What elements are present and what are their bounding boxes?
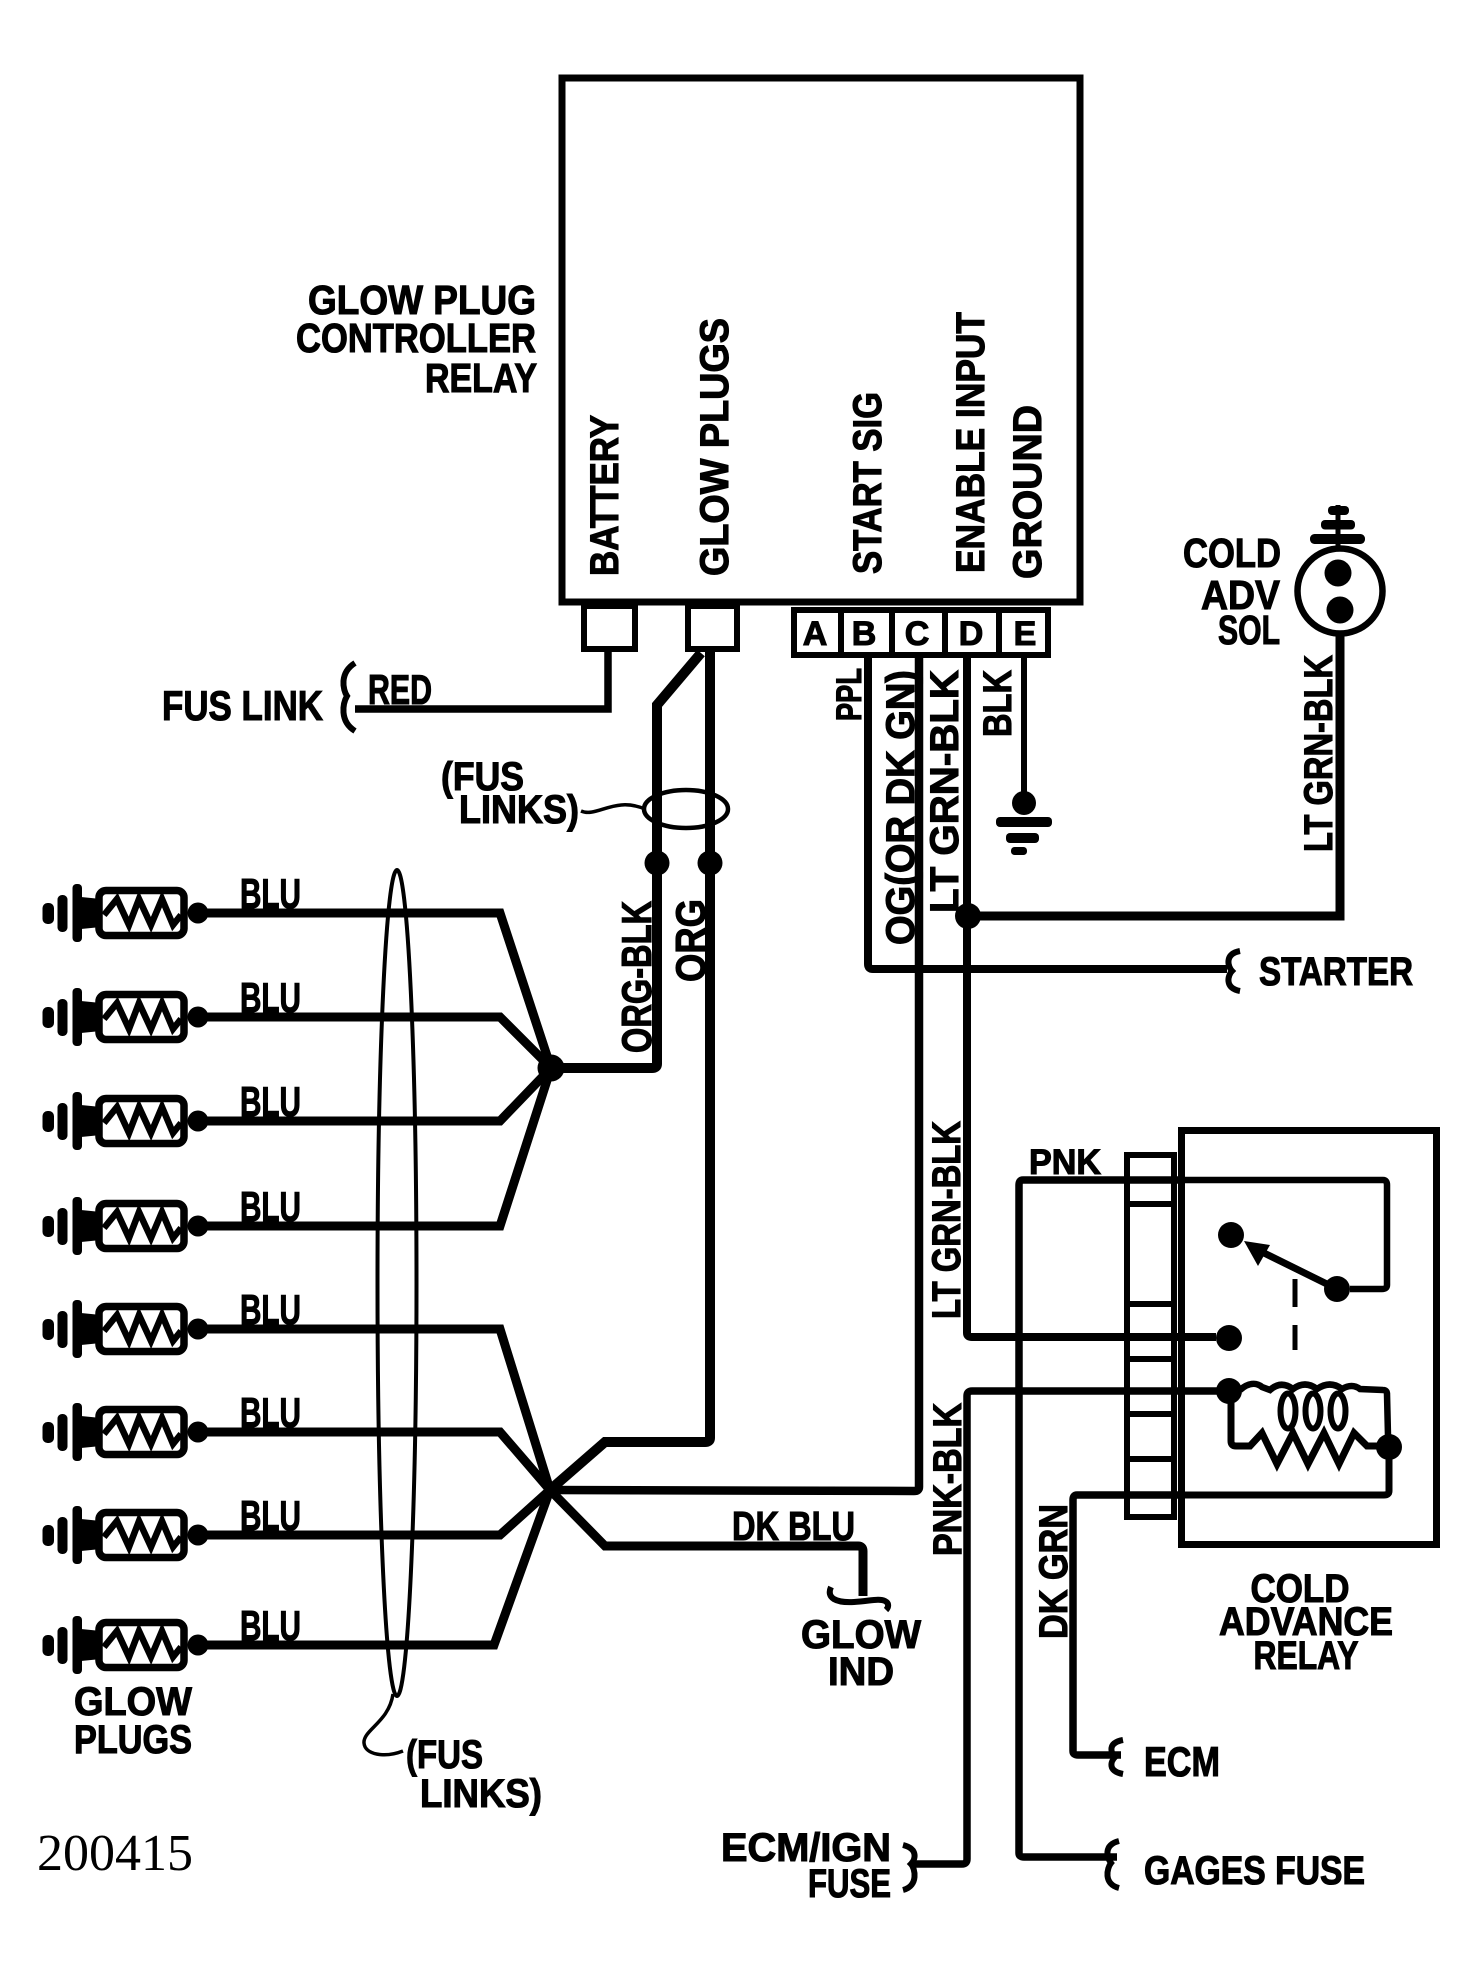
svg-text:OG(OR DK GN): OG(OR DK GN) — [879, 670, 923, 945]
relay resistor — [1231, 1400, 1378, 1464]
junction dot on ORG — [698, 851, 723, 876]
svg-text:ENABLE INPUT: ENABLE INPUT — [949, 312, 993, 573]
wire BLU row 6 to X junction — [198, 1432, 550, 1490]
svg-text:STARTER: STARTER — [1259, 950, 1413, 994]
svg-text:E: E — [1014, 615, 1037, 653]
label (FUS LINKS) bottom — [406, 1733, 542, 1816]
switch arrowhead — [1244, 1241, 1270, 1266]
glow plug GP2 — [43, 988, 209, 1046]
relay contact dot (pin 3) — [1216, 1325, 1242, 1351]
glow plug GP8 — [43, 1616, 209, 1674]
label GLOW IND — [801, 1613, 921, 1694]
switch pivot dot — [1324, 1276, 1350, 1302]
wire BLU row 3 to junction — [198, 1068, 551, 1121]
wire BLU row 5 to X junction — [198, 1329, 550, 1490]
svg-text:START SIG: START SIG — [846, 392, 890, 574]
svg-text:GLOW PLUGS: GLOW PLUGS — [693, 318, 737, 576]
label ECM/IGN FUSE — [721, 1826, 891, 1906]
svg-text:COLD: COLD — [1183, 530, 1281, 576]
wire BLK: pin E to ground — [1021, 658, 1027, 795]
ground symbol — [996, 791, 1052, 855]
svg-text:B: B — [852, 615, 877, 653]
switch NC contact dot — [1218, 1222, 1244, 1248]
coil/resistor output dot — [1376, 1434, 1402, 1460]
wire ORG-BLK: glow tab to junction J1 — [551, 653, 701, 1068]
glow plug GP3 — [43, 1092, 209, 1150]
svg-text:LINKS): LINKS) — [420, 1772, 542, 1816]
wire PPL: pin B to STARTER — [868, 658, 1227, 969]
wire BLU row 1 to junction — [198, 913, 551, 1068]
svg-text:RELAY: RELAY — [1254, 1634, 1359, 1678]
svg-text:GAGES FUSE: GAGES FUSE — [1144, 1849, 1365, 1893]
svg-text:ECM: ECM — [1144, 1738, 1220, 1785]
leader from LINKS) to ellipse — [581, 805, 645, 813]
coil feed dot (pin 4) — [1216, 1378, 1242, 1404]
cold adv sol: label — [1183, 530, 1281, 653]
label GLOW PLUGS bottom left — [74, 1680, 192, 1762]
svg-text:PNK-BLK: PNK-BLK — [926, 1403, 970, 1556]
svg-text:PNK: PNK — [1029, 1143, 1101, 1182]
relay box: GLOW PLUG CONTROLLER RELAY — [562, 78, 1080, 602]
wire RED: fus link to battery tab — [355, 652, 608, 709]
wire DK GRN: relay pin 6 down to ecm — [1073, 1495, 1180, 1755]
glow ind terminal — [830, 1587, 888, 1610]
svg-text:C: C — [905, 615, 930, 653]
glow plug GP1 — [43, 884, 209, 942]
junction dot plugs 1-4 — [538, 1055, 565, 1082]
label (FUS LINKS) top — [441, 755, 579, 832]
FUS LINK bracket — [343, 663, 355, 731]
ECM bracket — [1111, 1740, 1123, 1774]
leader from loop to (FUS LINKS) bottom — [364, 1694, 403, 1755]
junction dot on LT GRN-BLK — [955, 903, 981, 929]
svg-text:ORG-BLK: ORG-BLK — [613, 901, 660, 1053]
ECM/IGN FUSE bracket (mirrored) — [903, 1845, 915, 1890]
svg-text:PPL: PPL — [830, 668, 869, 721]
svg-text:GROUND: GROUND — [1006, 405, 1050, 579]
big fus links loop ellipse — [378, 870, 417, 1696]
svg-text:LT GRN-BLK: LT GRN-BLK — [923, 670, 967, 913]
dashed actuator line — [1293, 1279, 1298, 1350]
svg-text:LT GRN-BLK: LT GRN-BLK — [1297, 655, 1341, 852]
glow plug GP4 — [43, 1197, 209, 1255]
wire DK BLU: X junction to glow ind — [550, 1490, 863, 1596]
svg-text:A: A — [803, 615, 828, 653]
switch arm — [1262, 1252, 1337, 1289]
wire PNK: relay pin 1 down to gages fuse — [1019, 1180, 1185, 1857]
glow plug GP5 — [43, 1300, 209, 1358]
svg-text:SOL: SOL — [1218, 607, 1280, 653]
connector row A-E — [794, 610, 1048, 655]
svg-text:(FUS: (FUS — [406, 1733, 483, 1777]
label COLD ADVANCE RELAY — [1219, 1567, 1393, 1678]
fus links ellipse (top) — [644, 790, 728, 828]
junction dot on ORG-BLK — [645, 851, 670, 876]
wire BLU row 8 to X junction — [198, 1490, 550, 1645]
svg-text:LT GRN-BLK: LT GRN-BLK — [925, 1121, 969, 1319]
relay coil — [1240, 1384, 1388, 1436]
svg-text:FUS LINK: FUS LINK — [162, 682, 323, 729]
glow plugs terminal tab — [688, 606, 737, 649]
svg-text:IND: IND — [828, 1650, 894, 1694]
wire to cold adv sol — [968, 634, 1340, 916]
wire PNK-BLK: relay pin 4 down to ecm/ign fuse — [912, 1391, 1229, 1864]
cold adv sol symbol — [1298, 505, 1383, 634]
wire ORG: glow tab down to X area — [551, 651, 710, 1489]
svg-text:LINKS): LINKS) — [459, 788, 579, 832]
cold advance relay box — [1182, 1131, 1437, 1545]
svg-text:200415: 200415 — [37, 1825, 193, 1882]
svg-text:D: D — [959, 615, 984, 653]
glow plug GP7 — [43, 1506, 209, 1564]
cold advance relay connector strip — [1127, 1155, 1174, 1517]
GAGES FUSE bracket — [1107, 1841, 1119, 1888]
svg-text:PLUGS: PLUGS — [74, 1718, 192, 1762]
svg-text:RELAY: RELAY — [425, 355, 537, 401]
relay inner: top circuit to switch — [1185, 1180, 1387, 1289]
svg-text:FUSE: FUSE — [808, 1862, 891, 1906]
svg-text:BLK: BLK — [976, 670, 1020, 737]
svg-text:ORG: ORG — [667, 899, 714, 982]
wire LT GRN-BLK: pin D to cold advance relay — [967, 658, 1216, 1337]
wire BLU row 7 to X junction — [198, 1490, 550, 1535]
wire from output dot to pin 6 path — [1180, 1447, 1389, 1495]
glow plug GP6 — [43, 1403, 209, 1461]
svg-text:DK GRN: DK GRN — [1032, 1504, 1076, 1639]
STARTER bracket — [1228, 951, 1240, 991]
wire BLU row 4 to junction — [198, 1068, 551, 1226]
wire OG(OR DK GN): pin C down to X junction — [550, 658, 919, 1491]
svg-text:DK BLU: DK BLU — [732, 1503, 855, 1549]
wire BLU row 2 to junction — [198, 1017, 551, 1068]
battery terminal tab — [584, 606, 635, 649]
title GLOW PLUG CONTROLLER RELAY — [296, 277, 537, 401]
svg-text:BATTERY: BATTERY — [583, 415, 627, 576]
